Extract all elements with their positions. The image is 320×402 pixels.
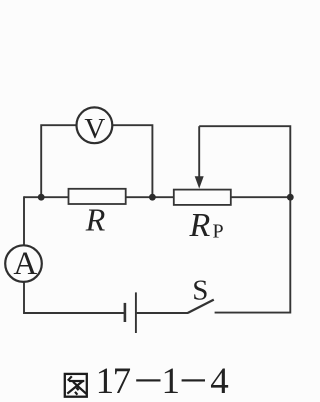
svg-text:P: P	[213, 221, 224, 243]
svg-text:A: A	[13, 246, 37, 282]
svg-text:7: 7	[113, 361, 132, 402]
svg-text:S: S	[192, 274, 208, 306]
svg-text:V: V	[84, 113, 105, 145]
svg-text:1: 1	[162, 361, 181, 402]
svg-text:R: R	[189, 207, 211, 244]
svg-text:1: 1	[96, 361, 115, 402]
svg-text:R: R	[85, 202, 106, 238]
svg-text:4: 4	[210, 361, 229, 402]
